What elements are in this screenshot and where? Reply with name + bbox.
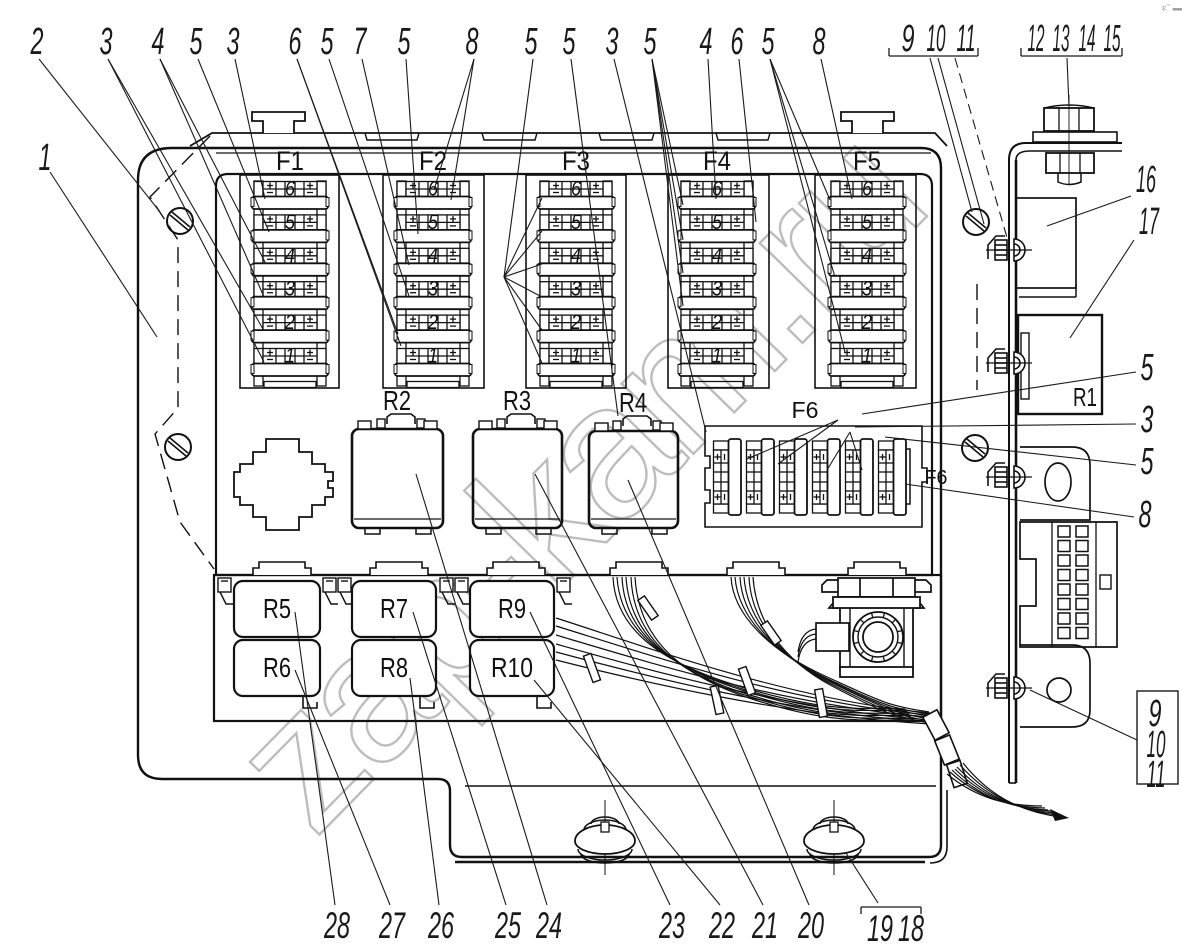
svg-text:9: 9 xyxy=(902,18,915,60)
fuse F1-6 xyxy=(251,178,329,210)
svg-text:28: 28 xyxy=(323,905,350,946)
svg-text:11: 11 xyxy=(1147,754,1166,796)
callout 28 bottom xyxy=(295,612,350,946)
svg-text:6: 6 xyxy=(289,21,303,63)
svg-text:5: 5 xyxy=(1141,347,1155,389)
relay row box xyxy=(214,575,941,721)
fuse F3-2 xyxy=(537,311,615,343)
relay latch clip f xyxy=(557,578,572,604)
callout 8 top x472 xyxy=(434,21,479,200)
fuse block F3 end strip xyxy=(550,382,602,388)
callout 5 right lower xyxy=(885,437,1154,483)
callout 3 right xyxy=(855,399,1154,441)
callout 5 top x327 xyxy=(321,21,410,296)
fuse F5-4 xyxy=(828,244,906,276)
svg-text:R6: R6 xyxy=(263,652,291,683)
connector block pin grid xyxy=(1058,526,1088,639)
bracket fastener 2 xyxy=(986,349,1032,374)
fuse F2-1 xyxy=(394,345,472,377)
svg-text:1: 1 xyxy=(39,137,52,179)
relay row tab 4 xyxy=(610,562,668,575)
relay R5 xyxy=(234,581,320,637)
fuse F2-5 xyxy=(394,211,472,243)
svg-text:4: 4 xyxy=(571,244,581,267)
svg-text:3: 3 xyxy=(712,278,722,301)
callout 6 top x737 xyxy=(731,21,757,222)
relay latch clip b xyxy=(323,578,338,604)
callout 16 xyxy=(1047,159,1156,226)
svg-text:1: 1 xyxy=(862,345,872,368)
screw mid-right xyxy=(962,435,988,461)
callout 3 top x612 xyxy=(606,21,707,432)
fuse F5-5 xyxy=(828,211,906,243)
callout 4 top x706 xyxy=(700,21,717,199)
svg-text:ɛ˝ ▬▬▬: ɛ˝ ▬▬▬ xyxy=(1162,3,1182,12)
relay R9 xyxy=(470,581,554,637)
svg-text:10: 10 xyxy=(927,18,946,60)
grommet left xyxy=(575,800,635,875)
horn mounting bracket xyxy=(822,578,931,608)
bracket fastener 1 xyxy=(986,236,1032,261)
fuse F6-6 xyxy=(879,439,907,515)
callout 26 bottom xyxy=(410,678,454,946)
svg-text:R4: R4 xyxy=(619,387,647,418)
svg-text:3: 3 xyxy=(227,21,240,63)
component 16 box xyxy=(1016,198,1076,288)
rail recess 2 xyxy=(482,133,537,140)
callout 22 bottom xyxy=(534,680,735,946)
svg-text:17: 17 xyxy=(1139,201,1160,243)
svg-text:1: 1 xyxy=(712,345,722,368)
svg-text:23: 23 xyxy=(658,905,685,946)
relay R8 foot xyxy=(420,696,434,708)
fuse F6-3 xyxy=(780,439,808,515)
harness clip 1 xyxy=(638,596,658,620)
rail recess 4 xyxy=(716,133,770,140)
harness sleeve band 2 xyxy=(935,735,960,765)
relay row tab 2 xyxy=(370,562,428,575)
fuse F4-5 xyxy=(678,211,756,243)
fuse F4-4 xyxy=(678,244,756,276)
svg-text:2: 2 xyxy=(284,311,295,334)
svg-text:12: 12 xyxy=(1028,18,1045,60)
fuse F2-2 xyxy=(394,311,472,343)
svg-text:6: 6 xyxy=(862,178,872,201)
svg-text:R7: R7 xyxy=(380,593,408,624)
connector block xyxy=(1020,522,1117,647)
callout group 19 18 xyxy=(846,853,924,949)
svg-text:5: 5 xyxy=(398,21,412,63)
callout 5 top x650 xyxy=(644,21,684,306)
fuse F4-6 xyxy=(678,178,756,210)
svg-text:2: 2 xyxy=(30,21,44,63)
svg-text:4: 4 xyxy=(152,21,165,63)
fuse block F5 xyxy=(815,146,916,388)
fuse F6-5 xyxy=(846,439,874,515)
fuse F5-6 xyxy=(828,178,906,210)
horn ring xyxy=(853,612,903,662)
relay latch clip a xyxy=(218,578,233,604)
relay R10 xyxy=(470,640,554,696)
callout 5 top x196 xyxy=(190,21,270,232)
svg-text:18: 18 xyxy=(898,908,924,949)
svg-text:25: 25 xyxy=(494,905,521,946)
fuse F1-3 xyxy=(251,278,329,310)
fuse F6-4 xyxy=(813,439,841,515)
harness clip 3 xyxy=(583,653,600,682)
svg-text:6: 6 xyxy=(731,21,745,63)
callout 8 top x819 xyxy=(813,21,853,199)
svg-text:22: 22 xyxy=(708,905,735,946)
svg-text:27: 27 xyxy=(378,905,406,946)
callout group 9 10 11 xyxy=(889,18,1008,241)
F6 label leader fan xyxy=(747,420,862,470)
callout 7 top x360 xyxy=(354,21,410,265)
fuse block F1 end strip xyxy=(264,382,316,388)
svg-text:4: 4 xyxy=(428,244,438,267)
fuse F6-2 xyxy=(747,439,775,515)
callout 27 bottom xyxy=(295,670,406,946)
svg-text:4: 4 xyxy=(285,244,295,267)
wire harness bundle C xyxy=(556,618,930,724)
svg-text:5: 5 xyxy=(525,21,539,63)
harness exit bundle xyxy=(947,763,1060,817)
harness sleeve band 3 xyxy=(947,760,968,787)
svg-text:11: 11 xyxy=(957,18,976,60)
fuse F5-2 xyxy=(828,311,906,343)
svg-text:4: 4 xyxy=(700,21,713,63)
bracket fastener 4 xyxy=(986,674,1032,699)
screw top-right xyxy=(963,209,989,235)
callout 8 right xyxy=(905,484,1152,536)
callout 5 fan to F3 fuses xyxy=(504,198,542,363)
callout 5 top x531 xyxy=(504,21,538,277)
fuse strip F6 end caps xyxy=(716,449,728,504)
fuse F3-5 xyxy=(537,211,615,243)
relay R8 xyxy=(352,640,436,696)
svg-text:2: 2 xyxy=(570,311,581,334)
svg-text:5: 5 xyxy=(762,21,776,63)
svg-text:3: 3 xyxy=(428,278,438,301)
svg-text:R2: R2 xyxy=(383,385,411,416)
svg-text:5: 5 xyxy=(321,21,335,63)
callout 17 xyxy=(1070,201,1160,338)
relay R3 xyxy=(473,414,562,534)
svg-text:4: 4 xyxy=(862,244,872,267)
svg-text:7: 7 xyxy=(354,21,368,63)
svg-text:13: 13 xyxy=(1053,18,1070,60)
top mounting rail xyxy=(190,133,947,146)
fuse F6-1 xyxy=(714,439,742,515)
fuse F3-6 xyxy=(537,178,615,210)
relay R2 xyxy=(352,414,443,534)
fuse strip F6 housing xyxy=(705,426,927,527)
bracket upper lug with slot xyxy=(1020,447,1090,520)
callout 25 bottom xyxy=(413,612,521,946)
enclosure bottom-right corner outer line xyxy=(930,790,947,863)
bracket lower lug with hole xyxy=(1020,645,1090,727)
horn body xyxy=(833,597,920,677)
callout 5 top x768 xyxy=(762,21,846,352)
svg-text:1: 1 xyxy=(571,345,581,368)
grommet right xyxy=(804,800,864,875)
svg-text:3: 3 xyxy=(1141,399,1154,441)
relay row tab 5 xyxy=(727,562,785,575)
harness clip 2 xyxy=(761,621,781,645)
svg-text:R5: R5 xyxy=(263,593,291,624)
fuse F3-3 xyxy=(537,278,615,310)
harness clip 5 xyxy=(738,666,755,695)
watermark zap-kam.ru xyxy=(192,92,960,868)
svg-text:5: 5 xyxy=(1141,441,1155,483)
svg-text:5: 5 xyxy=(712,211,722,234)
screw mid-left xyxy=(165,434,191,460)
svg-text:2: 2 xyxy=(711,311,722,334)
svg-text:6: 6 xyxy=(285,178,295,201)
fuse F3-1 xyxy=(537,345,615,377)
callout 20 bottom xyxy=(628,480,824,946)
bracket fastener 3 xyxy=(986,463,1032,488)
callout 3 top x233 xyxy=(227,21,266,199)
fuse F1-2 xyxy=(251,311,329,343)
svg-text:19: 19 xyxy=(867,908,893,949)
horn connector xyxy=(816,623,849,651)
callout 21 bottom xyxy=(535,474,778,946)
horn connector wires xyxy=(798,629,816,662)
fuse F5-1 xyxy=(828,345,906,377)
fuse block F3 xyxy=(526,146,626,388)
connector X1 cross xyxy=(234,439,333,530)
callout 2 top x37 xyxy=(30,21,160,212)
svg-text:F4: F4 xyxy=(703,146,731,176)
harness clip 4 xyxy=(710,685,724,714)
enclosure inner flange line xyxy=(465,785,936,787)
callout box 9 10 11 right xyxy=(1030,690,1178,796)
relay row tab 3 xyxy=(487,562,545,575)
svg-text:5: 5 xyxy=(563,21,577,63)
svg-text:5: 5 xyxy=(285,211,295,234)
relay latch clip d xyxy=(440,578,455,604)
svg-text:8: 8 xyxy=(1139,494,1152,536)
relay R4 xyxy=(589,416,678,534)
fuse F4-2 xyxy=(678,311,756,343)
fuse F1-1 xyxy=(251,345,329,377)
hidden edge dashed left xyxy=(150,136,214,569)
harness sleeve band 1 xyxy=(923,710,949,740)
svg-text:1: 1 xyxy=(285,345,295,368)
svg-text:F6: F6 xyxy=(925,467,948,489)
svg-text:15: 15 xyxy=(1104,18,1121,60)
fuse F4-1 xyxy=(678,345,756,377)
bolt 12-15 assembly xyxy=(1033,95,1117,185)
svg-text:24: 24 xyxy=(535,905,562,946)
relay row tab 1 xyxy=(253,562,311,575)
svg-text:F6: F6 xyxy=(792,397,819,423)
rail mounting tab right xyxy=(841,112,894,133)
svg-text:F1: F1 xyxy=(276,146,304,176)
horn bracket tab xyxy=(848,562,906,575)
harness clip 6 xyxy=(815,689,828,718)
fuse block F5 end strip xyxy=(841,382,893,388)
harness exit arrow xyxy=(1050,809,1069,821)
fuse F1-4 xyxy=(251,244,329,276)
relay R7 xyxy=(352,581,436,637)
svg-text:3: 3 xyxy=(100,21,113,63)
relay R6 xyxy=(234,640,320,696)
callout 4 top x158 xyxy=(152,21,267,297)
wire harness bundle B xyxy=(731,577,929,723)
svg-text:R3: R3 xyxy=(503,385,531,416)
svg-text:2: 2 xyxy=(861,311,872,334)
relay R6 foot xyxy=(303,696,317,708)
svg-text:26: 26 xyxy=(427,905,454,946)
callout 1 left xyxy=(39,137,158,337)
callout 3 top x106 xyxy=(100,21,265,362)
callout 5 top x569 xyxy=(563,21,619,416)
svg-text:2: 2 xyxy=(427,311,438,334)
fuse F1-5 xyxy=(251,211,329,243)
screw top-left xyxy=(167,208,193,234)
svg-text:5: 5 xyxy=(571,211,581,234)
svg-text:5: 5 xyxy=(428,211,438,234)
svg-text:3: 3 xyxy=(571,278,581,301)
callout group 12 13 14 15 xyxy=(1021,18,1122,106)
svg-text:3: 3 xyxy=(285,278,295,301)
svg-text:6: 6 xyxy=(712,178,722,201)
fuse F3-4 xyxy=(537,244,615,276)
callout 5 top x404 xyxy=(398,21,419,234)
callout 24 bottom xyxy=(416,474,562,946)
svg-text:20: 20 xyxy=(797,905,824,946)
svg-text:1: 1 xyxy=(428,345,438,368)
fuse block F2 end strip xyxy=(407,382,459,388)
svg-text:R1: R1 xyxy=(1073,382,1097,412)
fuse F5-3 xyxy=(828,278,906,310)
svg-text:8: 8 xyxy=(813,21,826,63)
svg-text:8: 8 xyxy=(466,21,479,63)
relay latch clip c xyxy=(338,578,353,604)
svg-text:3: 3 xyxy=(606,21,619,63)
svg-text:F5: F5 xyxy=(853,146,881,176)
fuse F4-3 xyxy=(678,278,756,310)
fuse F2-6 xyxy=(394,178,472,210)
svg-text:5: 5 xyxy=(190,21,204,63)
rail recess 3 xyxy=(599,133,654,140)
relay R10 foot xyxy=(537,696,551,708)
svg-text:5: 5 xyxy=(644,21,658,63)
fuse block F1 xyxy=(240,146,339,388)
fuse block F4 end strip xyxy=(691,382,743,388)
callout 6 top x295 xyxy=(289,21,402,346)
callout 23 bottom xyxy=(530,612,685,946)
relay R1 box xyxy=(1018,315,1102,414)
bracket plate vertical xyxy=(1009,143,1122,783)
svg-text:16: 16 xyxy=(1136,159,1156,201)
callout 5 right xyxy=(862,347,1154,414)
svg-text:R10: R10 xyxy=(491,652,533,683)
wire harness bundle A xyxy=(613,577,915,721)
svg-text:14: 14 xyxy=(1079,18,1096,60)
rail recess 1 xyxy=(365,133,419,140)
hidden edge dashed right vertical xyxy=(976,284,978,390)
enclosure inner lip line xyxy=(216,152,931,154)
fuse block F2 xyxy=(383,146,484,388)
svg-text:3: 3 xyxy=(862,278,872,301)
svg-text:6: 6 xyxy=(571,178,581,201)
fuse F2-3 xyxy=(394,278,472,310)
svg-text:4: 4 xyxy=(712,244,722,267)
rail mounting tab left xyxy=(252,112,305,133)
svg-text:21: 21 xyxy=(751,905,778,946)
inner fuse panel xyxy=(216,174,932,575)
fuse F2-4 xyxy=(394,244,472,276)
enclosure bottom edge second line xyxy=(455,861,925,864)
svg-text:5: 5 xyxy=(862,211,872,234)
main enclosure outline xyxy=(138,148,941,857)
svg-text:R9: R9 xyxy=(498,593,526,624)
relay latch clip e xyxy=(455,578,470,604)
fuse block F4 xyxy=(668,146,769,388)
svg-text:R8: R8 xyxy=(380,652,408,683)
